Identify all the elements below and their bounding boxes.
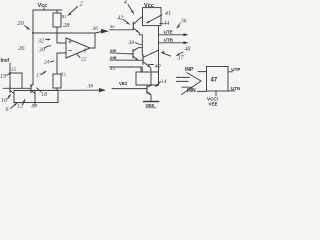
svg-text:38: 38 bbox=[128, 40, 135, 46]
svg-text:Vcc: Vcc bbox=[38, 3, 48, 9]
svg-text:22: 22 bbox=[81, 57, 87, 63]
wire output with arrow 36 bbox=[95, 32, 102, 34]
transistor Q14 bbox=[146, 86, 148, 94]
svg-text:46: 46 bbox=[110, 24, 115, 29]
wire Q14 emitter down bbox=[150, 95, 152, 101]
svg-text:47: 47 bbox=[211, 77, 218, 83]
output bus bbox=[158, 26, 160, 72]
svg-text:UTB: UTB bbox=[164, 38, 174, 43]
tail box center lead bbox=[150, 72, 152, 85]
svg-text:4: 4 bbox=[124, 0, 127, 6]
svg-text:17: 17 bbox=[36, 72, 42, 78]
wire Vcc tick bbox=[43, 8, 45, 11]
svg-text:38: 38 bbox=[87, 84, 94, 90]
wire Q42 emitter down bbox=[139, 33, 142, 55]
svg-text:42: 42 bbox=[117, 15, 123, 22]
transistor Q12 (mid) bbox=[30, 85, 32, 93]
svg-text:6: 6 bbox=[6, 107, 9, 113]
stub below divider bbox=[34, 103, 36, 106]
op-amp U22 triangle bbox=[66, 38, 90, 58]
svg-text:32: 32 bbox=[37, 38, 44, 44]
mirror box bbox=[14, 91, 58, 103]
transistor QB (cascade lower) bbox=[142, 55, 144, 64]
svg-text:14: 14 bbox=[161, 78, 167, 85]
big implication arrow bbox=[177, 77, 193, 87]
svg-text:INP: INP bbox=[185, 67, 194, 73]
svg-text:INN: INN bbox=[187, 88, 196, 94]
box current mirror top bbox=[143, 8, 162, 26]
wire op-amp output bbox=[90, 33, 95, 48]
svg-text:48: 48 bbox=[185, 46, 191, 53]
svg-text:88: 88 bbox=[32, 103, 38, 109]
svg-text:26: 26 bbox=[18, 45, 25, 52]
svg-text:36: 36 bbox=[92, 26, 99, 32]
svg-text:UTE: UTE bbox=[164, 30, 173, 35]
op-amp plus mark bbox=[69, 40, 72, 43]
svg-text:INE: INE bbox=[110, 49, 117, 53]
op-amp minus mark bbox=[69, 49, 72, 51]
svg-text:44: 44 bbox=[163, 20, 169, 27]
wire VB2 bias line bbox=[112, 88, 147, 90]
wire minus net down bbox=[56, 53, 58, 74]
wire top rail bbox=[33, 10, 62, 33]
wire INN bbox=[198, 90, 207, 92]
wire Iref down bbox=[9, 63, 11, 85]
node R1 bottom bbox=[56, 32, 58, 34]
node 20 junction bbox=[32, 32, 34, 34]
svg-text:UTN: UTN bbox=[231, 86, 240, 91]
svg-text:UTP: UTP bbox=[231, 67, 240, 72]
svg-text:18: 18 bbox=[41, 92, 47, 98]
resistor R2 bbox=[53, 74, 61, 88]
svg-text:12: 12 bbox=[17, 103, 23, 109]
resistor R1 bbox=[53, 13, 61, 27]
svg-text:19: 19 bbox=[0, 74, 6, 80]
wire UTB with arrow bbox=[159, 42, 185, 44]
svg-text:40: 40 bbox=[155, 63, 161, 70]
svg-text:R1: R1 bbox=[62, 14, 67, 19]
svg-text:15: 15 bbox=[11, 68, 17, 73]
svg-text:24: 24 bbox=[44, 58, 50, 65]
tail box bbox=[136, 72, 159, 85]
transistor Q42 bbox=[132, 22, 134, 30]
transistor QL (diff pair left) bbox=[132, 50, 134, 59]
tail box bottom edge bbox=[136, 84, 158, 86]
wire node row bbox=[33, 32, 95, 34]
svg-text:41: 41 bbox=[165, 10, 171, 17]
wire 26 vertical bbox=[32, 33, 34, 85]
svg-text:20: 20 bbox=[17, 20, 24, 27]
wire minus input stub 30 bbox=[57, 52, 66, 54]
wire UTN out bbox=[228, 90, 235, 92]
svg-text:Iref: Iref bbox=[1, 58, 10, 64]
svg-text:2: 2 bbox=[80, 1, 84, 8]
wire supply stub bbox=[215, 91, 217, 96]
mirror box divider bbox=[34, 91, 36, 103]
svg-text:16: 16 bbox=[1, 98, 7, 104]
svg-text:28: 28 bbox=[63, 22, 70, 29]
wire INB base line bbox=[110, 59, 143, 61]
svg-text:36: 36 bbox=[180, 18, 187, 24]
svg-text:45: 45 bbox=[110, 65, 116, 72]
svg-text:VEE: VEE bbox=[146, 103, 155, 108]
wire plus input stub 32 bbox=[57, 33, 66, 43]
svg-text:37: 37 bbox=[177, 55, 185, 61]
wire UTE with arrow bbox=[159, 34, 185, 36]
tick on op-amp edge bbox=[84, 49, 86, 53]
wire 45 line bbox=[110, 67, 142, 71]
wire bottom rail 38 bbox=[14, 89, 100, 91]
svg-text:VB2: VB2 bbox=[119, 81, 128, 86]
amplifier block 47 bbox=[207, 67, 229, 92]
node 19 bbox=[9, 72, 11, 74]
transistor Q16 (left) bbox=[9, 85, 11, 93]
wire INP bbox=[198, 71, 207, 73]
svg-text:30: 30 bbox=[38, 48, 45, 54]
svg-text:VEE: VEE bbox=[209, 101, 218, 106]
VEE rail bar bbox=[144, 101, 159, 103]
wire mirror tap bbox=[10, 73, 22, 88]
svg-text:R2: R2 bbox=[61, 72, 66, 77]
wire UTP out bbox=[228, 71, 233, 73]
